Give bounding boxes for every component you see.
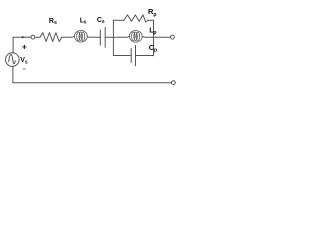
node A terminal circle bbox=[31, 35, 35, 39]
wire left bus bbox=[112, 20, 114, 55]
capacitor Cp bbox=[130, 48, 132, 62]
wire source top bbox=[12, 37, 14, 53]
svg-text:p: p bbox=[153, 30, 156, 36]
wire Rs to Ls bbox=[62, 36, 75, 37]
sine wave inside source bbox=[9, 55, 16, 64]
svg-text:p: p bbox=[154, 48, 157, 54]
resistor Rp bbox=[124, 15, 148, 22]
wire output bbox=[154, 36, 171, 38]
wire node to resistor bbox=[35, 36, 40, 38]
inductor Lp bbox=[129, 31, 142, 43]
wire Rp to right bus bbox=[148, 19, 154, 21]
capacitor Cs bbox=[99, 30, 101, 45]
wire top-left horizontal bbox=[13, 36, 31, 38]
inductor Ls bbox=[75, 30, 88, 42]
wire bottom rail bbox=[13, 82, 172, 84]
current arrow bbox=[22, 36, 26, 39]
wire Cs to bus bbox=[105, 36, 113, 38]
wire middle branch right bbox=[142, 36, 153, 39]
voltage source Vs bbox=[6, 53, 20, 67]
wire bottom branch left bbox=[113, 55, 131, 57]
svg-text:p: p bbox=[153, 12, 156, 18]
wire right bus bbox=[153, 20, 155, 56]
svg-text:s: s bbox=[84, 20, 87, 26]
minus sign of source bbox=[23, 68, 26, 70]
svg-text:s: s bbox=[25, 60, 28, 66]
svg-text:+: + bbox=[22, 42, 27, 52]
wire Ls to Cs bbox=[87, 36, 100, 39]
svg-text:s: s bbox=[54, 20, 57, 26]
svg-text:s: s bbox=[102, 19, 105, 25]
wire source bottom bbox=[12, 66, 14, 82]
bottom terminal circle bbox=[172, 81, 176, 85]
wire top branch stub bbox=[113, 19, 123, 21]
wire middle branch left bbox=[113, 35, 129, 38]
output terminal circle bbox=[171, 35, 175, 39]
wire bottom branch right bbox=[136, 55, 154, 57]
resistor Rs bbox=[40, 33, 62, 42]
